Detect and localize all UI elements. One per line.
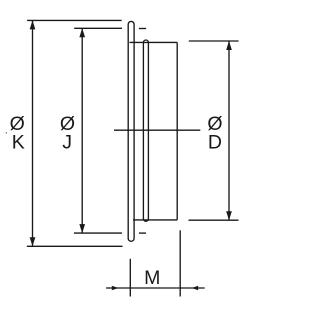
svg-text:M: M bbox=[144, 267, 160, 289]
svg-text:K: K bbox=[12, 132, 25, 154]
svg-text:J: J bbox=[62, 132, 72, 154]
svg-text:D: D bbox=[208, 132, 222, 154]
